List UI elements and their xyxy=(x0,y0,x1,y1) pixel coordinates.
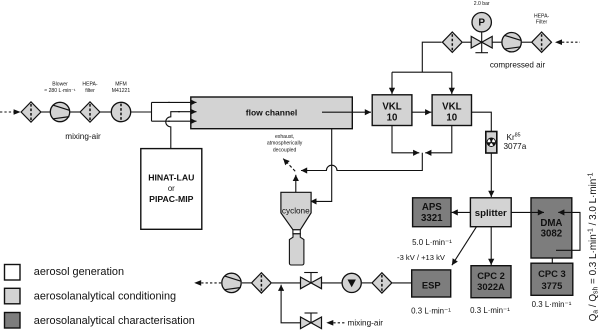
svg-text:aerosolanalytical conditioning: aerosolanalytical conditioning xyxy=(34,291,176,303)
svg-text:VKL: VKL xyxy=(382,102,401,113)
svg-text:aerosolanalytical characterisa: aerosolanalytical characterisation xyxy=(34,315,195,327)
svg-text:Kr85: Kr85 xyxy=(507,133,521,142)
svg-text:aerosol generation: aerosol generation xyxy=(34,266,124,278)
svg-text:filter: filter xyxy=(85,88,95,94)
svg-text:Blower: Blower xyxy=(52,82,68,88)
svg-text:HEPA-: HEPA- xyxy=(534,13,549,19)
svg-text:3082: 3082 xyxy=(541,229,563,240)
svg-text:HEPA-: HEPA- xyxy=(82,82,97,88)
svg-text:CPC 3: CPC 3 xyxy=(538,268,566,279)
svg-text:MFM: MFM xyxy=(115,82,127,88)
svg-text:CPC 2: CPC 2 xyxy=(477,270,505,281)
svg-text:exhaust,: exhaust, xyxy=(275,134,294,140)
svg-text:3775: 3775 xyxy=(541,280,562,291)
svg-text:mixing-air: mixing-air xyxy=(65,132,101,141)
svg-text:PIPAC-MIP: PIPAC-MIP xyxy=(149,194,193,204)
svg-text:≈ 280 L·min⁻¹: ≈ 280 L·min⁻¹ xyxy=(44,88,76,94)
svg-text:ESP: ESP xyxy=(422,279,441,290)
svg-text:mixing-air: mixing-air xyxy=(348,319,384,328)
svg-text:3321: 3321 xyxy=(421,213,443,224)
svg-text:APS: APS xyxy=(422,202,442,213)
svg-text:Filter: Filter xyxy=(536,20,548,26)
svg-text:DMA: DMA xyxy=(540,218,562,229)
svg-text:5.0 L·min⁻¹: 5.0 L·min⁻¹ xyxy=(412,238,452,247)
svg-text:10: 10 xyxy=(446,112,457,123)
svg-text:compressed air: compressed air xyxy=(490,61,546,70)
svg-text:flow channel: flow channel xyxy=(246,107,297,117)
svg-text:3022A: 3022A xyxy=(477,281,505,292)
svg-text:3077a: 3077a xyxy=(504,142,527,151)
svg-text:0.3 L·min⁻¹: 0.3 L·min⁻¹ xyxy=(532,300,572,309)
svg-text:Qa / Qsh = 0.3 L·min-1 / 3.0 L: Qa / Qsh = 0.3 L·min-1 / 3.0 L·min-1 xyxy=(587,172,599,321)
svg-text:0.3 L·min⁻¹: 0.3 L·min⁻¹ xyxy=(470,306,510,315)
svg-text:VKL: VKL xyxy=(442,102,461,113)
svg-text:HINAT-LAU: HINAT-LAU xyxy=(148,173,194,183)
svg-text:decoupled: decoupled xyxy=(273,147,297,153)
svg-text:10: 10 xyxy=(387,112,398,123)
svg-text:cyclone: cyclone xyxy=(282,207,310,216)
svg-text:2.0 bar: 2.0 bar xyxy=(474,1,490,7)
svg-text:M41221: M41221 xyxy=(112,88,131,94)
svg-text:-3 kV / +13 kV: -3 kV / +13 kV xyxy=(397,253,446,262)
svg-text:0.3 L·min⁻¹: 0.3 L·min⁻¹ xyxy=(411,306,451,315)
svg-text:P: P xyxy=(478,18,485,29)
svg-text:splitter: splitter xyxy=(475,208,507,219)
svg-text:or: or xyxy=(168,184,175,193)
svg-text:atmospherically: atmospherically xyxy=(267,141,303,147)
